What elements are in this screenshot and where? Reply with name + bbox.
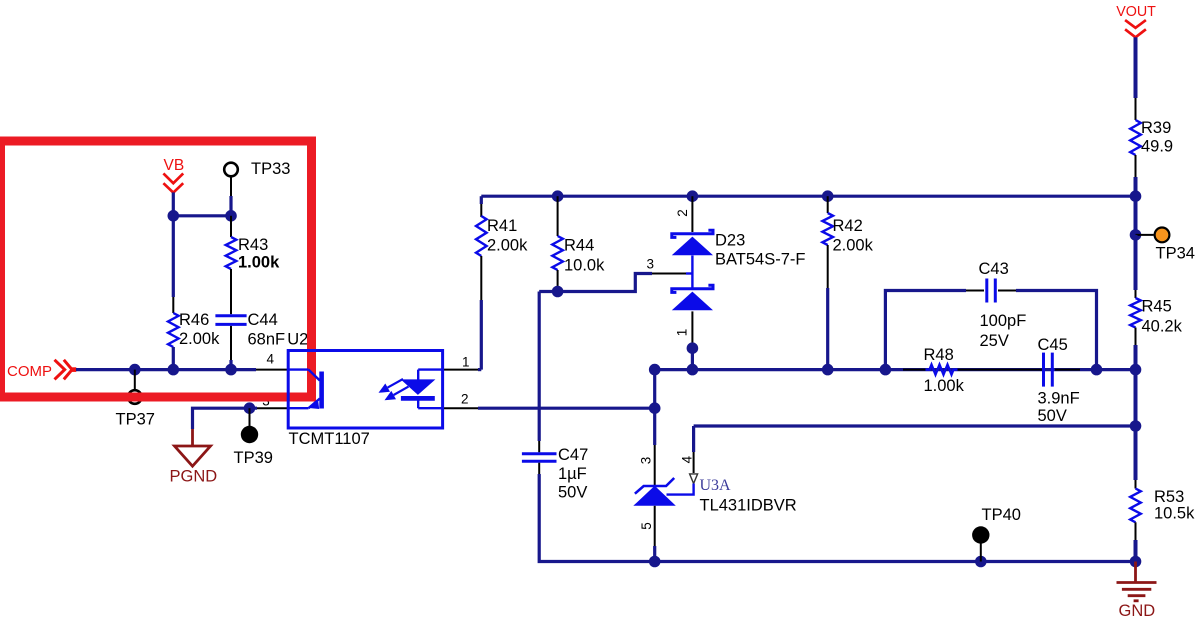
junction mid rail left end (649, 364, 661, 376)
svg-text:40.2k: 40.2k (1142, 318, 1183, 336)
pin lead R45 bottom (1135, 328, 1137, 346)
svg-text:1µF: 1µF (558, 465, 587, 483)
junction D23 top (687, 190, 699, 202)
pin lead R43 bottom / C44 top (230, 269, 232, 314)
svg-text:1.00k: 1.00k (238, 254, 280, 272)
wire opto pin2 net (478, 407, 655, 410)
pin stub D23 pin 3 (652, 273, 686, 275)
resistor R45 (1130, 298, 1141, 328)
pin stub TP33 (230, 176, 232, 196)
svg-text:R48: R48 (924, 346, 954, 364)
svg-text:4: 4 (680, 455, 695, 463)
junction C44 / COMP net (225, 364, 237, 376)
wire (1134, 426, 1138, 480)
svg-text:COMP: COMP (7, 363, 52, 380)
svg-text:1.00k: 1.00k (924, 377, 965, 395)
pin lead R46 top (172, 297, 174, 313)
svg-text:C43: C43 (979, 260, 1009, 278)
pin lead D23 pin 1 (691, 311, 693, 343)
wire (1134, 540, 1138, 562)
wire R42 bottom (826, 288, 829, 370)
svg-text:2: 2 (461, 392, 469, 407)
wire VOUT net (1134, 37, 1138, 98)
svg-text:100pF: 100pF (980, 312, 1027, 330)
pin lead R42 bottom (827, 245, 829, 288)
svg-text:BAT54S-7-F: BAT54S-7-F (715, 251, 805, 269)
svg-text:R53: R53 (1154, 488, 1184, 506)
diode D23 top half (672, 230, 713, 255)
svg-text:3: 3 (647, 257, 655, 272)
pin lead R45 top (1135, 290, 1137, 298)
svg-text:49.9: 49.9 (1141, 138, 1173, 156)
svg-text:PGND: PGND (170, 468, 218, 486)
wire VOUT column (1134, 196, 1138, 235)
pin lead R39 bottom (1135, 155, 1137, 177)
resistor R48 (926, 365, 958, 375)
svg-text:VB: VB (164, 157, 185, 174)
pin lead R42 top (827, 196, 829, 213)
wire VB to R46 (172, 216, 175, 297)
svg-text:R43: R43 (238, 236, 268, 254)
svg-text:C47: C47 (558, 446, 588, 464)
pin stub opto pin 2 (443, 407, 478, 409)
capacitor C47 (522, 454, 557, 461)
junction TL431 / opto pin2 net (649, 402, 661, 414)
resistor R53 (1130, 489, 1141, 523)
resistor R44 (552, 236, 563, 270)
capacitor C43 (987, 279, 996, 303)
pin graphic D23 pin 3 (686, 272, 692, 274)
wire C47 top (538, 292, 541, 442)
svg-text:D23: D23 (715, 232, 745, 250)
pin lead R44 bottom (557, 270, 559, 287)
junction feedback / VOUT column (1130, 420, 1142, 432)
junction top rail / VOUT column (1130, 190, 1142, 202)
test point TP33 (224, 163, 238, 177)
wire D23 internal (691, 256, 693, 289)
svg-text:R41: R41 (487, 217, 517, 235)
wire (229, 360, 232, 370)
svg-text:C45: C45 (1038, 336, 1068, 354)
wire bottom rail (655, 560, 1136, 563)
light arrow 1 (opto) (379, 379, 404, 393)
pin stub TP34 (1136, 234, 1154, 236)
svg-text:TP40: TP40 (982, 506, 1021, 524)
pin lead R41 bottom (480, 256, 482, 300)
pin lead D23 pin 2 (691, 196, 693, 232)
wire R41 top corner (480, 196, 483, 204)
pin lead R53 bottom (1135, 522, 1137, 540)
wire COMP net (76, 368, 256, 371)
test point TP39 (241, 426, 258, 443)
svg-text:1: 1 (675, 329, 690, 337)
wire top rail (481, 195, 1135, 198)
pin stub opto pin 4 (256, 369, 288, 371)
optocoupler U2 TCMT1107 (288, 351, 442, 429)
svg-text:3.9nF: 3.9nF (1038, 390, 1080, 408)
svg-text:50V: 50V (1038, 407, 1067, 425)
test point TP34 (1155, 228, 1170, 243)
pin lead R41 top (480, 204, 482, 217)
pin lead R48 left (903, 369, 926, 371)
pin lead TL431 ref (693, 452, 695, 473)
pin lead C45 right (1055, 369, 1080, 371)
junction VB node right (225, 210, 237, 222)
svg-text:TP33: TP33 (251, 160, 290, 178)
svg-text:U3A: U3A (700, 477, 732, 494)
pin stub TP37 (134, 370, 136, 390)
svg-text:R46: R46 (179, 311, 209, 329)
junction TP37 (129, 364, 141, 376)
wire TL431 cathode riser (653, 370, 656, 409)
junction D23 / mid rail (687, 364, 699, 376)
wire R46 bottom (172, 347, 175, 370)
wire C43 right leg (1016, 291, 1097, 370)
svg-text:R45: R45 (1142, 298, 1172, 316)
svg-text:R39: R39 (1141, 119, 1171, 137)
wire D23 bottom (691, 343, 694, 370)
power flag VOUT (1125, 20, 1146, 37)
wire R44 bottom (556, 287, 559, 292)
svg-text:TP39: TP39 (234, 449, 273, 467)
svg-text:5: 5 (639, 522, 654, 530)
test point TP37 (128, 390, 142, 404)
svg-text:TL431IDBVR: TL431IDBVR (700, 497, 797, 515)
resistor R39 (1130, 120, 1141, 155)
wire feedback row (694, 424, 1136, 427)
junction TL431 anode / bottom rail (649, 556, 661, 568)
wire (1134, 177, 1138, 196)
pin stub TP40 (980, 543, 982, 562)
pin lead R43 top (230, 216, 232, 237)
junction TP40 (975, 556, 987, 568)
svg-text:25V: 25V (980, 332, 1009, 350)
junction TP34 (1130, 229, 1142, 241)
light arrow 2 (opto) (385, 387, 409, 401)
wire opto pin1 net (478, 368, 481, 371)
wire TL431 anode (653, 546, 656, 562)
svg-text:10.0k: 10.0k (564, 257, 605, 275)
svg-text:TP34: TP34 (1156, 245, 1195, 263)
pin lead C44 bottom (230, 326, 232, 360)
svg-text:2.00k: 2.00k (833, 237, 874, 255)
svg-text:4: 4 (267, 352, 275, 367)
diode D23 bottom half (672, 285, 713, 310)
ground GND (1117, 562, 1157, 601)
junction bottom rail / VOUT column (1130, 556, 1142, 568)
wire (1134, 235, 1138, 290)
svg-text:U2: U2 (287, 331, 308, 349)
pin stub TP39 (249, 408, 251, 426)
highlight box (red annotation rectangle) (1, 141, 312, 397)
wire (1134, 370, 1138, 426)
junction D23 pin1 node (687, 342, 699, 354)
svg-text:R44: R44 (564, 237, 594, 255)
junction TP39 (244, 402, 256, 414)
junction R44 top (552, 190, 564, 202)
wire R41 to opto pin1 (480, 300, 483, 370)
svg-text:2.00k: 2.00k (179, 330, 220, 348)
svg-text:68nF: 68nF (248, 331, 286, 349)
pin lead R39 top (1135, 98, 1137, 120)
junction C43 left leg (880, 364, 892, 376)
svg-text:3: 3 (639, 457, 654, 465)
svg-text:10.5k: 10.5k (1154, 505, 1195, 523)
wire C47 bottom to rail (539, 474, 655, 562)
capacitor C45 (1044, 353, 1053, 387)
resistor R41 (476, 216, 487, 256)
ground PGND (175, 429, 211, 466)
junction R44 / jog row (552, 286, 564, 298)
capacitor C44 (215, 316, 246, 325)
junction C43 right leg (1091, 364, 1103, 376)
pin lead R44 top (557, 196, 559, 236)
svg-text:VOUT: VOUT (1116, 4, 1156, 20)
junction R42 / mid rail (822, 364, 834, 376)
wire feedback drop (692, 426, 695, 452)
junction mid rail / VOUT column (1130, 364, 1142, 376)
svg-text:2: 2 (675, 209, 690, 217)
wire C43 left leg (885, 291, 966, 370)
input flag COMP (55, 360, 77, 380)
svg-text:1: 1 (462, 355, 470, 370)
svg-text:C44: C44 (248, 311, 278, 329)
svg-text:50V: 50V (558, 484, 587, 502)
junction R42 top (822, 190, 834, 202)
svg-text:TCMT1107: TCMT1107 (289, 430, 370, 448)
power flag VB (163, 173, 183, 192)
wire VB node horizontal (173, 214, 231, 217)
resistor R46 (168, 313, 179, 347)
svg-text:R42: R42 (833, 217, 863, 235)
pin lead C43 left (966, 290, 984, 292)
pin stub opto pin 1 (443, 369, 478, 371)
wire opto pin3 to PGND (193, 408, 258, 429)
pin lead C47 top (538, 441, 540, 452)
wire (229, 196, 232, 216)
wire (1134, 345, 1138, 370)
pin lead C47 bottom (538, 463, 540, 474)
junction R46 / COMP net (168, 364, 180, 376)
svg-text:GND: GND (1119, 602, 1156, 620)
resistor R43 (226, 237, 237, 269)
shunt regulator U3A TL431 (633, 408, 697, 546)
svg-text:TP37: TP37 (116, 411, 155, 429)
test point TP40 (972, 526, 989, 543)
pin lead R48 right / C45 left (958, 369, 1044, 371)
svg-text:2.00k: 2.00k (487, 237, 528, 255)
pin lead C43 right (998, 290, 1016, 292)
pin stub opto pin 3 (257, 407, 288, 409)
resistor R42 (822, 213, 833, 245)
wire D23 pin3 net (539, 274, 652, 292)
junction VB node left (168, 210, 180, 222)
pin lead R53 top (1135, 480, 1137, 489)
wire mid rail (655, 368, 1136, 371)
wire VB down (172, 192, 175, 215)
